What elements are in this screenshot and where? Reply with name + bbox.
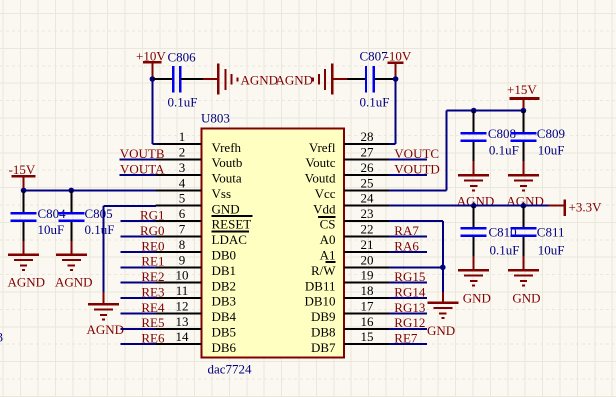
svg-text:DB0: DB0 bbox=[212, 248, 237, 263]
svg-text:Voutd: Voutd bbox=[305, 171, 336, 186]
pin 17 DB9 bbox=[311, 298, 390, 324]
pin 2 Voutb bbox=[156, 145, 243, 171]
svg-text:9: 9 bbox=[179, 252, 186, 267]
wire net RG12 pin16 bbox=[389, 328, 427, 330]
junction C805 bbox=[69, 188, 75, 194]
svg-text:C810: C810 bbox=[489, 225, 517, 240]
svg-text:C811: C811 bbox=[537, 225, 565, 240]
svg-text:2: 2 bbox=[179, 145, 186, 160]
svg-text:0.1uF: 0.1uF bbox=[85, 222, 115, 237]
svg-text:+3.3V: +3.3V bbox=[569, 200, 603, 215]
wire net RE7 pin15 bbox=[389, 343, 427, 345]
svg-text:10: 10 bbox=[176, 268, 189, 283]
svg-text:AGND: AGND bbox=[276, 72, 314, 87]
capacitor C807 bbox=[366, 66, 374, 93]
overbar CS pin23 bbox=[318, 216, 336, 218]
capacitor C811 top lead bbox=[522, 206, 524, 228]
capacitor C804 lead bbox=[23, 190, 25, 212]
svg-text:DB4: DB4 bbox=[212, 309, 237, 324]
junction C804 bbox=[21, 188, 27, 194]
svg-text:A1: A1 bbox=[320, 248, 336, 263]
svg-text:23: 23 bbox=[361, 206, 374, 221]
svg-text:Vss: Vss bbox=[212, 186, 232, 201]
pin 18 DB10 bbox=[304, 283, 390, 309]
wire net VOUTA pin3 bbox=[120, 174, 157, 176]
svg-text:DB8: DB8 bbox=[311, 324, 336, 339]
svg-text:DB1: DB1 bbox=[212, 263, 237, 278]
pin 25 Vcc bbox=[315, 175, 390, 201]
capacitor C806 bbox=[173, 66, 180, 93]
svg-text:13: 13 bbox=[176, 314, 189, 329]
svg-text:3: 3 bbox=[179, 160, 186, 175]
wire net RE6 pin14 bbox=[120, 343, 156, 345]
wire -10V down to pin28 bbox=[389, 79, 396, 144]
svg-text:19: 19 bbox=[361, 268, 374, 283]
svg-text:24: 24 bbox=[361, 191, 375, 206]
capacitor C808 top lead bbox=[473, 111, 475, 133]
ground GND under C811 bbox=[508, 270, 539, 285]
svg-text:26: 26 bbox=[361, 160, 375, 175]
svg-text:RE2: RE2 bbox=[141, 269, 164, 284]
pin 7 LDAC bbox=[156, 222, 247, 248]
pin 3 Vouta bbox=[156, 160, 242, 186]
svg-text:AGND: AGND bbox=[87, 322, 125, 337]
pin 14 DB6 bbox=[156, 329, 237, 355]
junction C808 bbox=[471, 108, 477, 114]
pin 15 DB7 bbox=[311, 329, 390, 355]
pin 6 RESET bbox=[156, 206, 252, 232]
wire net RA7 pin22 bbox=[389, 236, 427, 238]
svg-text:0.1uF: 0.1uF bbox=[489, 143, 519, 158]
pin 24 Vdd bbox=[313, 191, 390, 217]
svg-text:RE3: RE3 bbox=[141, 284, 164, 299]
svg-text:RA6: RA6 bbox=[394, 238, 419, 253]
svg-text:0.1uF: 0.1uF bbox=[168, 95, 198, 110]
svg-text:22: 22 bbox=[361, 222, 374, 237]
svg-text:A0: A0 bbox=[320, 232, 336, 247]
svg-text:VOUTC: VOUTC bbox=[394, 146, 439, 161]
capacitor C804 bottom lead bbox=[23, 222, 25, 255]
ground AGND under C804 bbox=[8, 255, 39, 270]
wire C806 to AGND port bbox=[181, 78, 203, 80]
wire pin24 Vdd rail to +3.3V bbox=[389, 205, 549, 207]
pin 21 A1 bbox=[320, 237, 390, 263]
svg-text:5: 5 bbox=[179, 191, 186, 206]
svg-text:18: 18 bbox=[361, 283, 374, 298]
wire net VOUTB pin2 bbox=[120, 159, 157, 161]
svg-text:VOUTA: VOUTA bbox=[120, 161, 165, 176]
pin 11 DB3 bbox=[156, 283, 237, 309]
svg-text:+15V: +15V bbox=[507, 82, 537, 97]
pin 4 Vss bbox=[156, 175, 232, 201]
svg-text:16: 16 bbox=[361, 314, 375, 329]
pin 12 DB4 bbox=[156, 298, 237, 324]
pin 26 Voutd bbox=[305, 160, 390, 186]
svg-text:RG1: RG1 bbox=[140, 208, 165, 223]
svg-text:Vdd: Vdd bbox=[313, 201, 336, 216]
ground GND under C810 bbox=[458, 270, 489, 285]
svg-text:AGND: AGND bbox=[241, 72, 279, 87]
svg-text:Vouta: Vouta bbox=[212, 171, 242, 186]
wire net RE2 pin10 bbox=[120, 282, 156, 284]
svg-text:RG15: RG15 bbox=[394, 269, 425, 284]
svg-text:AGND: AGND bbox=[8, 275, 46, 290]
svg-text:RE0: RE0 bbox=[141, 238, 164, 253]
overbar LDAC pin7 bbox=[212, 230, 250, 232]
svg-text:GND: GND bbox=[463, 291, 491, 306]
svg-text:-10V: -10V bbox=[385, 49, 412, 64]
svg-text:11: 11 bbox=[176, 283, 189, 298]
pin 8 DB0 bbox=[156, 237, 237, 263]
svg-text:3: 3 bbox=[0, 330, 3, 345]
pin 13 DB5 bbox=[156, 314, 237, 340]
pin 19 DB11 bbox=[305, 268, 390, 294]
junction C811 bbox=[521, 203, 527, 209]
svg-text:U803: U803 bbox=[201, 111, 230, 126]
wire net RG1 pin6 bbox=[120, 220, 156, 222]
overbar RESET pin6 bbox=[212, 215, 253, 217]
svg-text:DB9: DB9 bbox=[311, 309, 336, 324]
svg-text:+10V: +10V bbox=[136, 49, 166, 64]
svg-text:LDAC: LDAC bbox=[212, 232, 247, 247]
pin 5 GND bbox=[156, 191, 240, 217]
capacitor C808 bottom lead bbox=[473, 142, 475, 175]
pin 28 Vrefl bbox=[309, 129, 390, 155]
svg-text:10uF: 10uF bbox=[538, 243, 565, 258]
capacitor C811 bottom lead bbox=[522, 237, 524, 270]
svg-text:RE5: RE5 bbox=[141, 315, 164, 330]
capacitor C808 bbox=[461, 133, 487, 141]
wire pin23 CS to GND bbox=[389, 221, 443, 292]
svg-text:DB3: DB3 bbox=[212, 294, 237, 309]
svg-text:C806: C806 bbox=[168, 50, 197, 65]
svg-text:21: 21 bbox=[361, 237, 374, 252]
wire net RE5 pin13 bbox=[120, 328, 156, 330]
wire pin25 Vcc to +15V rail bbox=[389, 111, 523, 191]
ground GND symbol (pins 23,20) bbox=[427, 303, 458, 318]
ground AGND port (right, facing left) bbox=[313, 64, 347, 95]
svg-text:RG13: RG13 bbox=[394, 300, 425, 315]
svg-text:4: 4 bbox=[179, 175, 186, 190]
wire net RE0 pin8 bbox=[120, 251, 156, 253]
svg-text:VOUTD: VOUTD bbox=[394, 161, 440, 176]
svg-text:14: 14 bbox=[176, 329, 190, 344]
junction +10V/C806 bbox=[150, 76, 156, 82]
power -15V bbox=[9, 162, 36, 190]
wire net RG15 pin19 bbox=[389, 282, 427, 284]
svg-text:-15V: -15V bbox=[9, 162, 36, 177]
junction C810 bbox=[471, 203, 477, 209]
svg-text:RE4: RE4 bbox=[141, 300, 165, 315]
junction C809/+15V bbox=[521, 108, 527, 114]
svg-text:C809: C809 bbox=[537, 126, 565, 141]
svg-text:Voutb: Voutb bbox=[212, 155, 243, 170]
svg-text:10uF: 10uF bbox=[538, 143, 565, 158]
ground GND stem (pins 23,20) bbox=[442, 292, 444, 303]
pin 16 DB8 bbox=[311, 314, 390, 340]
capacitor C804 bbox=[11, 213, 37, 221]
capacitor C809 bottom lead bbox=[522, 142, 524, 175]
svg-text:RG0: RG0 bbox=[140, 223, 165, 238]
svg-text:25: 25 bbox=[361, 175, 374, 190]
svg-text:20: 20 bbox=[361, 252, 374, 267]
svg-text:RESET: RESET bbox=[212, 217, 252, 232]
svg-text:C805: C805 bbox=[85, 206, 113, 221]
wire net RG0 pin7 bbox=[120, 236, 156, 238]
svg-text:6: 6 bbox=[179, 206, 186, 221]
svg-text:DB7: DB7 bbox=[311, 340, 336, 355]
pin 10 DB2 bbox=[156, 268, 237, 294]
svg-text:0.1uF: 0.1uF bbox=[490, 243, 520, 258]
power -10V bbox=[385, 49, 412, 80]
pin 1 Vrefh bbox=[156, 129, 242, 155]
svg-text:12: 12 bbox=[176, 298, 189, 313]
wire pin20 R/W to GND junction bbox=[389, 266, 443, 268]
svg-text:27: 27 bbox=[361, 145, 375, 160]
svg-text:7: 7 bbox=[179, 222, 186, 237]
capacitor C809 bbox=[510, 133, 536, 141]
power +10V bbox=[136, 49, 166, 80]
wire junction to C806 bbox=[153, 78, 172, 80]
ground AGND under C808 bbox=[458, 175, 489, 190]
svg-text:AGND: AGND bbox=[55, 275, 93, 290]
ground AGND port (left, facing right) bbox=[203, 64, 237, 95]
svg-text:8: 8 bbox=[179, 237, 186, 252]
svg-text:Vcc: Vcc bbox=[315, 186, 336, 201]
pin 22 A0 bbox=[320, 222, 390, 248]
svg-text:GND: GND bbox=[427, 323, 455, 338]
wire net RG14 pin18 bbox=[389, 297, 427, 299]
wire net RE1 pin9 bbox=[120, 266, 156, 268]
power +15V bbox=[507, 82, 539, 111]
ground AGND symbol (pin5) bbox=[88, 304, 119, 319]
svg-text:15: 15 bbox=[361, 329, 374, 344]
capacitor C805 bottom lead bbox=[70, 222, 72, 255]
svg-text:1: 1 bbox=[179, 129, 186, 144]
pin 20 R/W bbox=[311, 252, 390, 278]
capacitor C810 top lead bbox=[473, 206, 475, 228]
svg-text:DB10: DB10 bbox=[304, 294, 335, 309]
svg-text:DB2: DB2 bbox=[212, 278, 237, 293]
svg-text:Vrefl: Vrefl bbox=[309, 140, 336, 155]
svg-text:28: 28 bbox=[361, 129, 374, 144]
capacitor C809 top lead bbox=[522, 111, 524, 133]
wire pin5 GND bbox=[103, 206, 156, 292]
svg-text:R/W: R/W bbox=[311, 263, 336, 278]
svg-text:RG14: RG14 bbox=[394, 284, 426, 299]
svg-text:Voutc: Voutc bbox=[305, 155, 335, 170]
capacitor C810 bbox=[461, 228, 487, 236]
svg-text:RE7: RE7 bbox=[394, 331, 418, 346]
svg-text:RE1: RE1 bbox=[141, 254, 164, 269]
junction pin20/GND bbox=[440, 265, 446, 271]
overbar W of R/W pin20 bbox=[326, 261, 336, 263]
wire +10V down to pin1 bbox=[152, 79, 157, 144]
wire -15V rail to pin4 Vss bbox=[24, 189, 156, 191]
wire C807 to -10V junction bbox=[375, 78, 396, 80]
svg-text:GND: GND bbox=[512, 291, 540, 306]
wire net VOUTC pin27 bbox=[389, 159, 427, 161]
capacitor C810 bottom lead bbox=[473, 237, 475, 270]
pin 23 CS bbox=[320, 206, 390, 232]
svg-text:17: 17 bbox=[361, 298, 375, 313]
svg-text:dac7724: dac7724 bbox=[208, 362, 253, 377]
svg-text:0.1uF: 0.1uF bbox=[360, 95, 390, 110]
svg-text:RA7: RA7 bbox=[394, 223, 419, 238]
wire net RA6 pin21 bbox=[389, 251, 427, 253]
svg-text:Vrefh: Vrefh bbox=[212, 140, 242, 155]
wire AGND port to C807 bbox=[348, 78, 366, 80]
pin 9 DB1 bbox=[156, 252, 237, 278]
wire net RE3 pin11 bbox=[120, 297, 156, 299]
power +3.3V bbox=[549, 199, 602, 216]
svg-text:GND: GND bbox=[212, 201, 240, 216]
svg-text:DB11: DB11 bbox=[305, 278, 336, 293]
capacitor C805 lead bbox=[70, 190, 72, 212]
op-amp U803 chip body dac7724 bbox=[202, 128, 345, 357]
wire net RG13 pin17 bbox=[389, 312, 427, 314]
wire net VOUTD pin26 bbox=[389, 174, 427, 176]
svg-text:DB5: DB5 bbox=[212, 324, 237, 339]
wire net RE4 pin12 bbox=[120, 312, 156, 314]
svg-text:VOUTB: VOUTB bbox=[120, 146, 165, 161]
ground AGND under C809 bbox=[508, 175, 539, 190]
svg-text:RG12: RG12 bbox=[394, 315, 425, 330]
svg-text:10uF: 10uF bbox=[38, 222, 65, 237]
svg-text:DB6: DB6 bbox=[212, 340, 237, 355]
capacitor C805 bbox=[58, 213, 84, 221]
pin 27 Voutc bbox=[305, 145, 390, 171]
svg-text:RE6: RE6 bbox=[141, 331, 165, 346]
ground AGND stem (pin5) bbox=[102, 292, 104, 304]
capacitor C811 bbox=[510, 228, 536, 236]
junction -10V/C807 bbox=[393, 76, 399, 82]
ground AGND under C805 bbox=[56, 255, 87, 270]
svg-text:CS: CS bbox=[320, 217, 336, 232]
